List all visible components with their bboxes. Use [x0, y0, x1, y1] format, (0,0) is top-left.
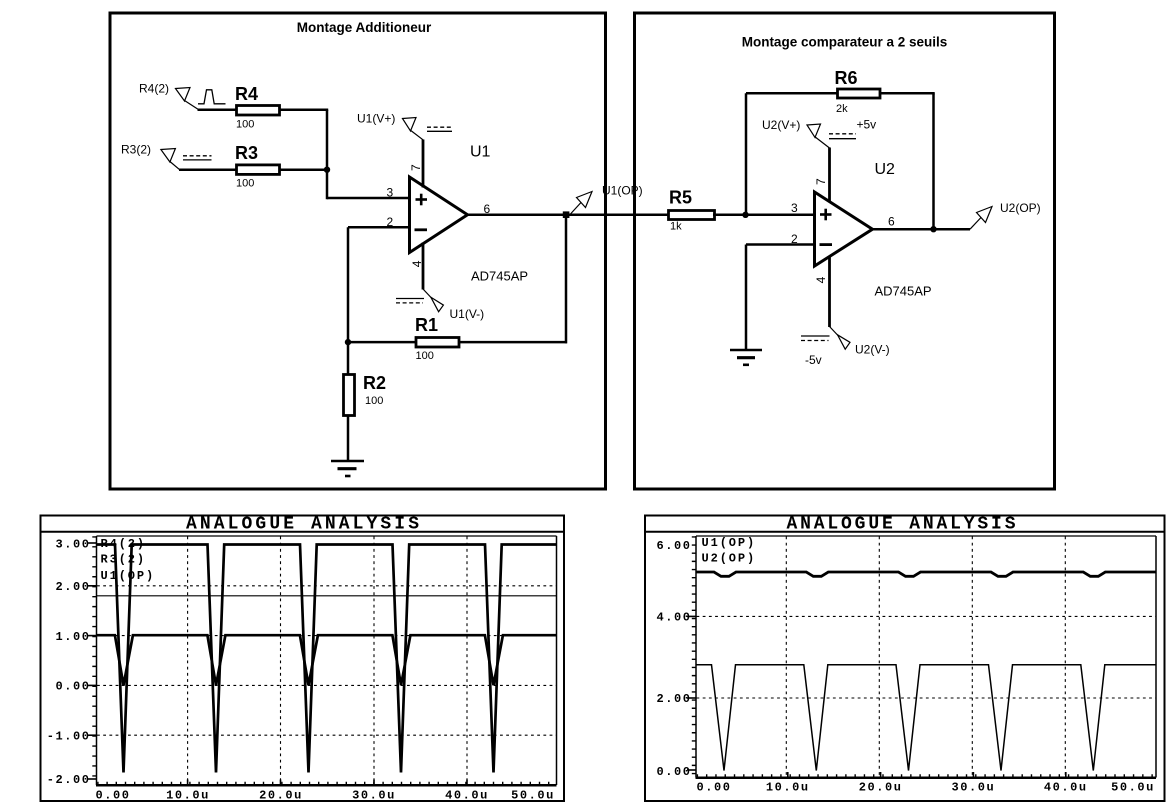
op-amp U2 triangle	[815, 192, 873, 266]
graph 1 legend	[101, 537, 156, 583]
svg-text:50.0u: 50.0u	[511, 789, 555, 803]
wire feedback vertical right	[565, 215, 568, 344]
graph 1 vertical gridlines	[187, 537, 189, 785]
svg-text:40.0u: 40.0u	[1044, 781, 1088, 795]
graph 1 y major ticks	[88, 542, 97, 544]
terminal R4(2) probe arrow	[176, 88, 191, 102]
junction dot feedback node	[345, 339, 351, 345]
svg-text:Montage Additioneur: Montage Additioneur	[297, 20, 432, 35]
svg-text:40.0u: 40.0u	[445, 789, 489, 803]
wire pin 2	[348, 226, 409, 229]
svg-text:U1(OP): U1(OP)	[702, 536, 757, 550]
junction dot node B	[742, 212, 748, 218]
svg-text:4: 4	[410, 260, 424, 267]
resistor R2	[344, 375, 355, 416]
DC source icon R3	[183, 155, 212, 157]
svg-text:4.00: 4.00	[656, 611, 691, 625]
graph 1 x major ticks	[187, 780, 189, 786]
wire pin 2 U2	[746, 243, 814, 246]
svg-text:1k: 1k	[670, 221, 682, 233]
graph 1 plot border right	[556, 536, 558, 785]
probe U1(V-) arrow	[423, 289, 432, 298]
svg-text:2k: 2k	[836, 103, 848, 115]
wire feedback vertical right	[932, 93, 935, 230]
svg-text:2: 2	[387, 215, 394, 229]
graph 1 y minor ticks	[92, 536, 96, 785]
svg-text:U2(V+): U2(V+)	[762, 118, 800, 132]
graph 2 y major ticks	[687, 615, 696, 617]
DC icon U2(V+)	[829, 133, 856, 135]
DC icon U1(V-)	[396, 298, 424, 300]
node A junction dot	[324, 167, 330, 173]
svg-text:R3: R3	[235, 143, 258, 163]
graph 1 y axis labels	[47, 537, 91, 787]
svg-text:100: 100	[365, 395, 383, 407]
probe U1(OP) arrow	[570, 203, 581, 215]
svg-text:2.00: 2.00	[55, 580, 90, 594]
svg-text:30.0u: 30.0u	[952, 781, 996, 795]
svg-text:100: 100	[236, 178, 254, 190]
svg-text:-1.00: -1.00	[47, 729, 91, 743]
junction dot U2 output	[930, 226, 936, 232]
schematic frame: Montage comparateur box	[635, 13, 1055, 489]
svg-text:R5: R5	[669, 188, 692, 208]
resistor R5	[669, 211, 715, 220]
graph 2 vertical gridlines	[785, 537, 787, 778]
graph 2 trace U2(OP)	[697, 665, 1157, 771]
probe U2(OP) arrow	[970, 218, 981, 230]
svg-text:U1: U1	[470, 144, 491, 161]
svg-text:U2(V-): U2(V-)	[855, 343, 890, 357]
DC icon U2(V-)	[801, 335, 830, 337]
resistor R3	[237, 165, 280, 175]
wire R4 input	[198, 108, 238, 111]
svg-text:R3(2): R3(2)	[101, 553, 147, 567]
svg-text:ANALOGUE ANALYSIS: ANALOGUE ANALYSIS	[787, 515, 1016, 535]
graph 2 y axis labels	[656, 539, 691, 779]
wire feedback vertical left	[745, 93, 748, 216]
U2 pin 7 wire	[828, 148, 831, 203]
svg-text:3.00: 3.00	[55, 537, 90, 551]
op-amp U1 minus mark	[415, 228, 428, 231]
output wire U1 to R5	[466, 214, 668, 217]
graph 2 horizontal gridlines	[697, 615, 1156, 617]
graph 1 trace R4(2)	[97, 545, 556, 773]
svg-text:3: 3	[791, 201, 798, 215]
svg-text:U2(OP): U2(OP)	[1000, 201, 1041, 215]
graph 1 horizontal gridlines	[97, 585, 556, 587]
graph 2 x major ticks	[787, 772, 789, 778]
graph 2 x axis line	[696, 776, 1157, 779]
svg-text:U1(OP): U1(OP)	[101, 569, 156, 583]
probe U2(V-) arrow	[830, 327, 839, 336]
resistor R4	[237, 106, 280, 116]
U1 pin 7 wire	[422, 140, 425, 188]
graph 1 x axis line	[96, 784, 557, 787]
svg-text:100: 100	[416, 350, 434, 362]
svg-text:R2: R2	[363, 373, 386, 393]
svg-text:0.00: 0.00	[55, 680, 90, 694]
svg-text:1.00: 1.00	[55, 630, 90, 644]
graph 2 x axis labels	[696, 781, 1154, 795]
svg-text:-2.00: -2.00	[47, 773, 91, 787]
U1 pin 4 wire	[422, 243, 425, 290]
svg-text:2: 2	[791, 232, 798, 246]
graph 1 panel frame	[41, 516, 565, 802]
wire R1 right	[458, 341, 567, 344]
graph 1 x minor ticks	[97, 782, 556, 785]
graph 2 legend	[702, 536, 757, 565]
wire vertical feedback left	[347, 227, 350, 343]
graph 1 plot border top	[97, 535, 557, 537]
svg-text:R4: R4	[235, 84, 258, 104]
svg-text:10.0u: 10.0u	[766, 781, 810, 795]
svg-text:50.0u: 50.0u	[1111, 781, 1155, 795]
output junction square	[563, 211, 570, 218]
output wire U2	[871, 228, 970, 231]
svg-text:R3(2): R3(2)	[121, 143, 151, 157]
wire vertical to node A	[326, 110, 329, 200]
wire R3 input	[179, 168, 237, 171]
svg-text:20.0u: 20.0u	[859, 781, 903, 795]
wire R4 output	[279, 108, 328, 111]
svg-text:+5v: +5v	[857, 118, 877, 132]
wire R1 left	[347, 341, 417, 344]
svg-text:R6: R6	[835, 68, 858, 88]
graph 1 title separator line	[40, 531, 566, 533]
svg-text:3: 3	[387, 186, 394, 200]
svg-text:U1(V-): U1(V-)	[450, 307, 485, 321]
DC icon U1(V+)	[427, 126, 452, 128]
resistor R6	[838, 89, 881, 98]
svg-text:100: 100	[236, 119, 254, 131]
svg-text:R1: R1	[415, 315, 438, 335]
svg-text:AD745AP: AD745AP	[875, 284, 932, 299]
wire R2 top lead	[347, 342, 350, 375]
svg-text:ANALOGUE ANALYSIS: ANALOGUE ANALYSIS	[186, 515, 419, 535]
svg-text:U2(OP): U2(OP)	[702, 551, 757, 565]
probe U1(V+) arrow	[403, 118, 417, 132]
svg-text:10.0u: 10.0u	[166, 789, 210, 803]
graph 1 y axis line	[96, 536, 98, 785]
graph 2 plot border top	[696, 535, 1156, 537]
graph 2 y axis line	[695, 536, 697, 778]
svg-text:2.00: 2.00	[656, 692, 691, 706]
graph 2 panel frame	[645, 516, 1165, 802]
graph 2 trace U1(OP)	[697, 572, 1157, 576]
op-amp U1 triangle	[410, 177, 468, 253]
svg-text:7: 7	[814, 178, 828, 185]
graph 2 y minor ticks	[692, 536, 696, 777]
svg-text:0.00: 0.00	[95, 789, 130, 803]
svg-text:U1(V+): U1(V+)	[357, 112, 395, 126]
ground symbol box1	[331, 460, 364, 463]
wire to pin 3	[327, 197, 409, 200]
graph 1 trace U1(OP)	[97, 595, 556, 597]
graph 1 trace R3(2)	[97, 635, 556, 685]
svg-text:30.0u: 30.0u	[352, 789, 396, 803]
svg-text:0.00: 0.00	[696, 781, 731, 795]
wire to ground box2	[745, 245, 748, 351]
svg-text:U1(OP): U1(OP)	[602, 184, 643, 198]
svg-text:6.00: 6.00	[656, 539, 691, 553]
graph 1 x axis labels	[95, 789, 554, 803]
svg-text:-5v: -5v	[805, 353, 822, 367]
svg-text:Montage comparateur a 2 seuils: Montage comparateur a 2 seuils	[742, 35, 948, 50]
svg-text:U2: U2	[875, 161, 896, 178]
svg-text:0.00: 0.00	[656, 765, 691, 779]
op-amp U1 plus mark	[416, 198, 428, 201]
resistor R1	[416, 338, 459, 348]
terminal R3(2) probe arrow	[161, 149, 176, 163]
op-amp U2 plus mark	[820, 213, 832, 216]
svg-text:7: 7	[409, 164, 423, 171]
graph 2 x minor ticks	[697, 774, 1156, 777]
wire R5 to pin3	[713, 214, 814, 217]
probe U2(V+) arrow	[807, 124, 821, 138]
wire top feedback left	[746, 92, 838, 95]
svg-text:4: 4	[814, 276, 828, 283]
U2 pin 4 wire	[828, 256, 831, 327]
svg-text:R4(2): R4(2)	[139, 82, 169, 96]
svg-text:AD745AP: AD745AP	[471, 269, 528, 284]
wire top feedback right	[879, 92, 935, 95]
graph 2 title separator line	[644, 531, 1166, 533]
schematic frame: Montage Additioneur box	[110, 13, 606, 489]
ground symbol box2	[730, 349, 762, 352]
svg-text:6: 6	[888, 214, 895, 228]
graph 2 plot border right	[1155, 536, 1157, 778]
wire R2 bottom lead	[347, 415, 350, 462]
pulse generator icon	[198, 90, 226, 104]
op-amp U2 minus mark	[820, 243, 833, 246]
wire R3 output	[279, 168, 328, 171]
svg-text:20.0u: 20.0u	[259, 789, 303, 803]
